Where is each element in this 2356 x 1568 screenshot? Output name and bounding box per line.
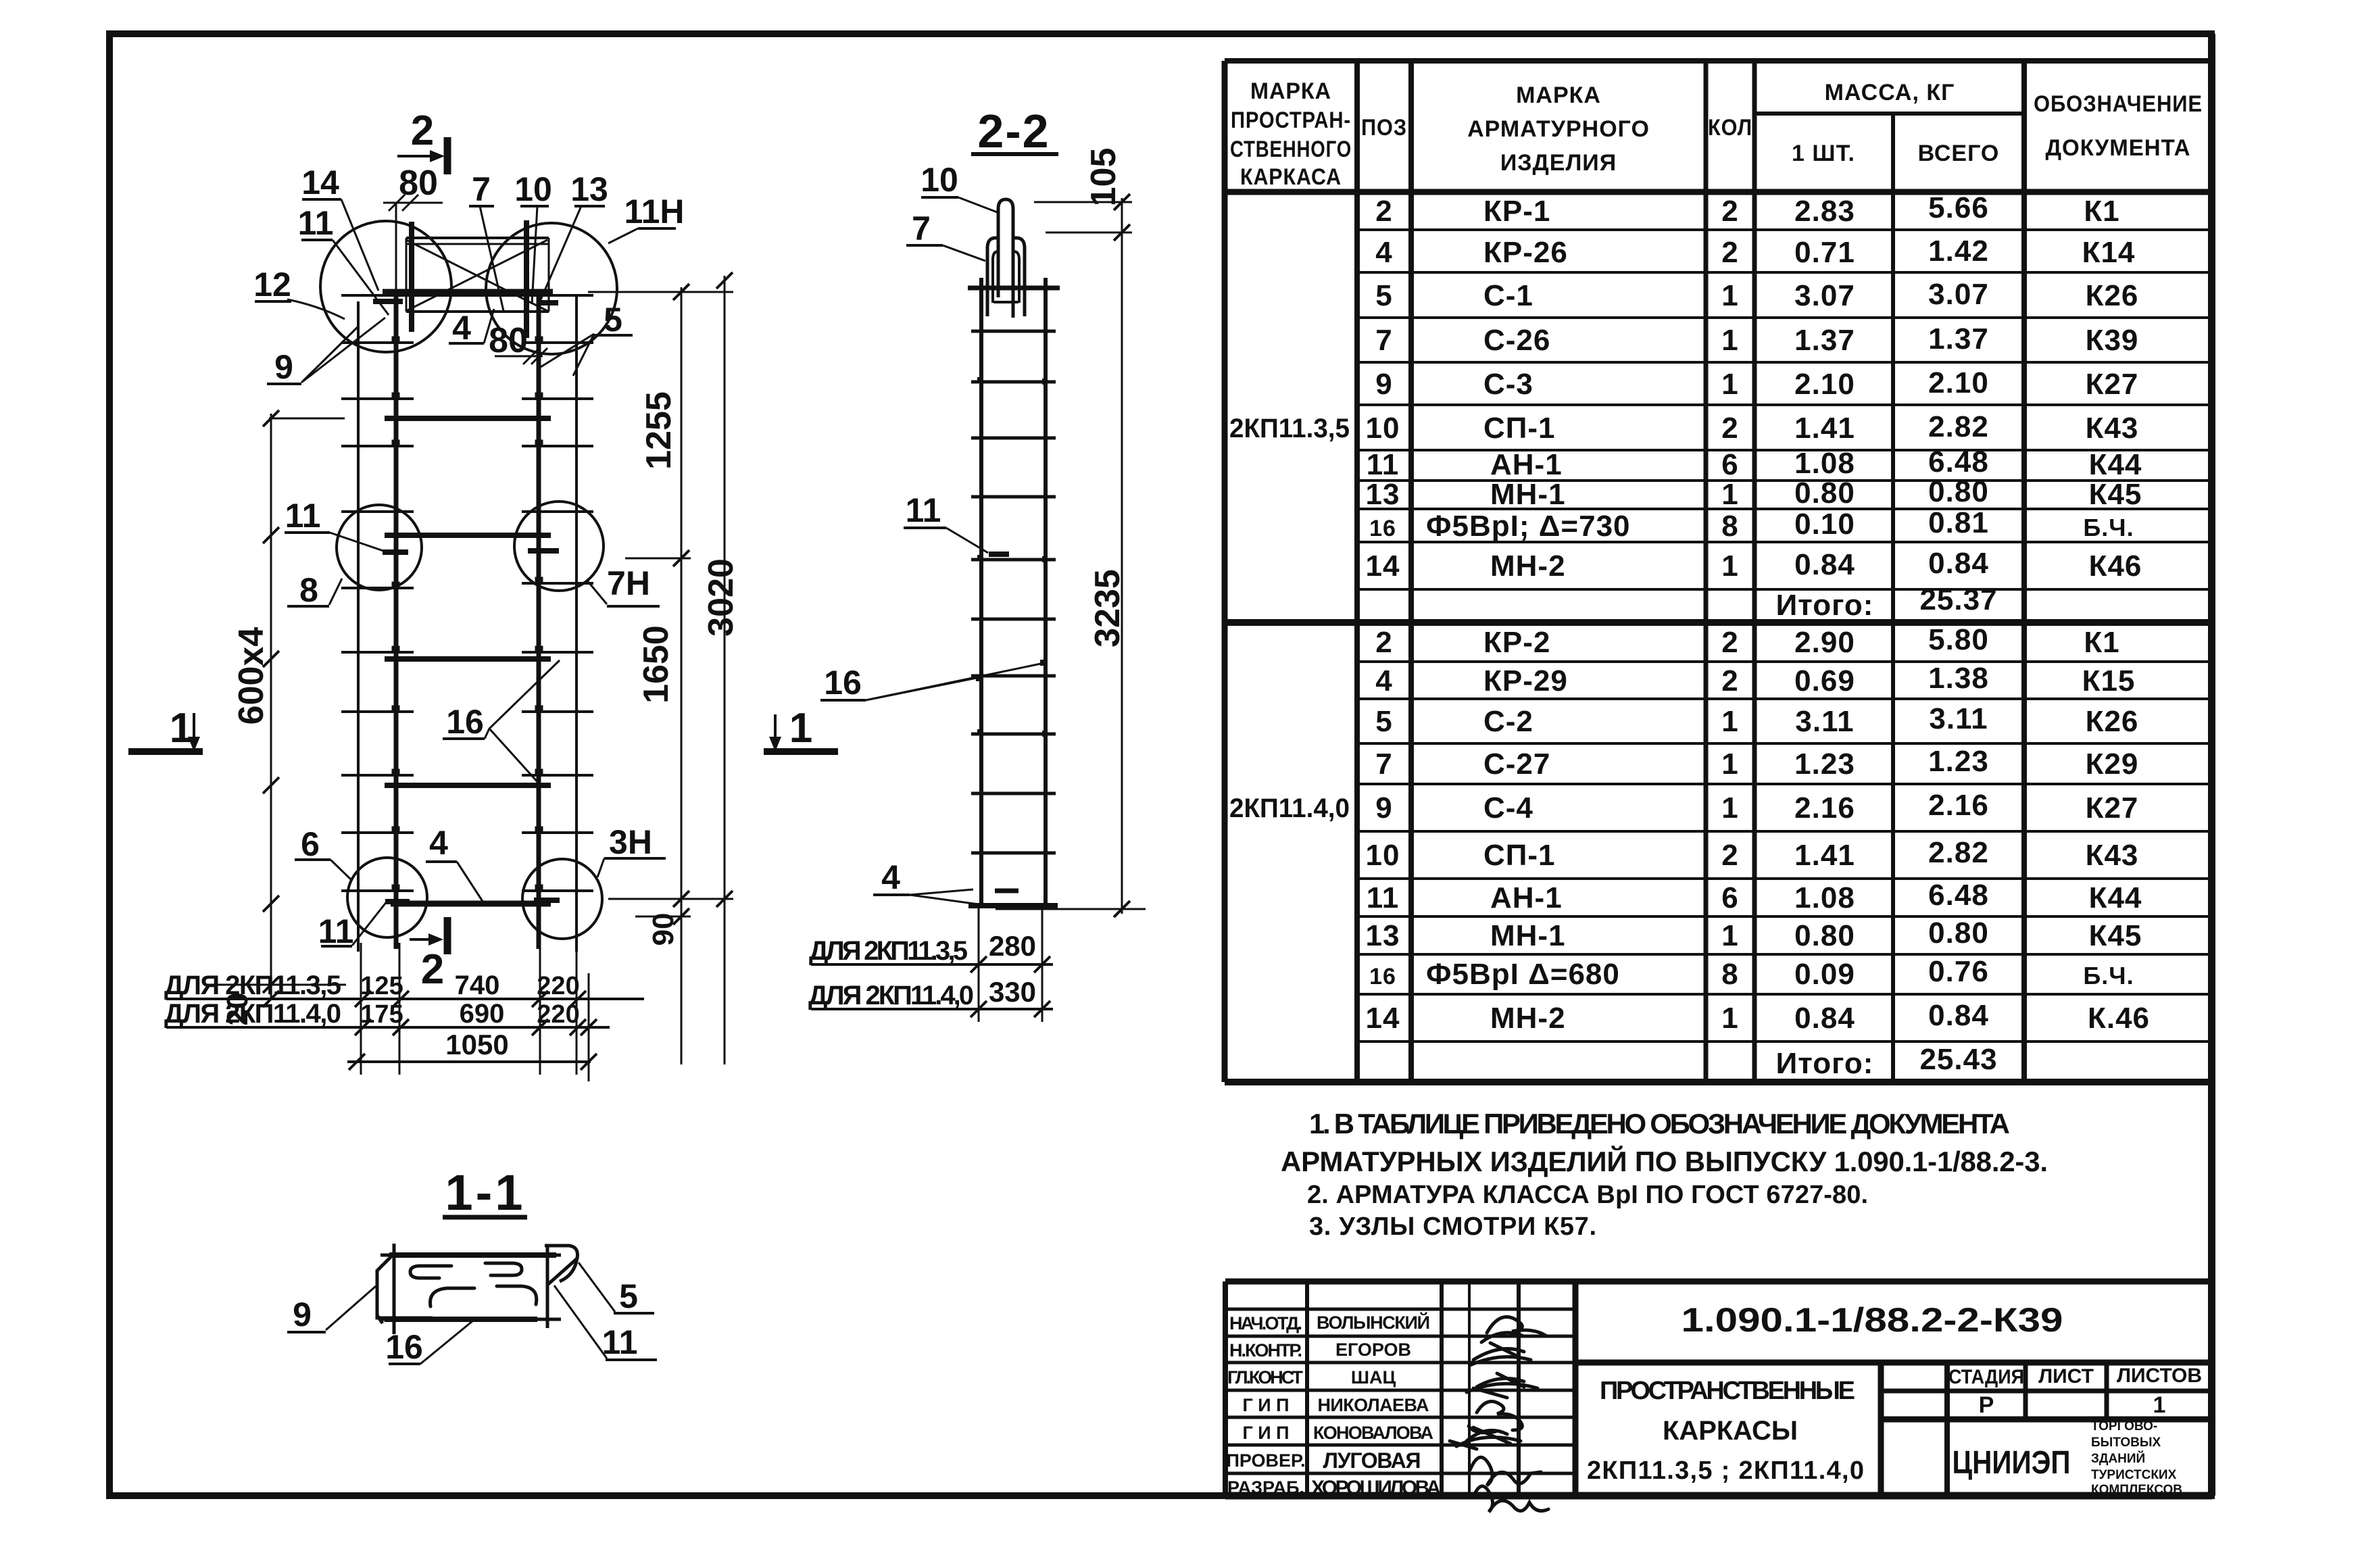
svg-text:600х4: 600х4 [232, 627, 271, 725]
svg-text:12: 12 [253, 266, 291, 303]
svg-text:3.11: 3.11 [1795, 705, 1854, 738]
svg-text:1: 1 [2153, 1392, 2166, 1418]
svg-text:90: 90 [647, 913, 680, 946]
svg-text:К14: К14 [2082, 236, 2136, 269]
svg-text:4: 4 [881, 858, 900, 896]
svg-text:К44: К44 [2089, 881, 2142, 914]
svg-text:1: 1 [1721, 368, 1738, 401]
svg-text:0.84: 0.84 [1928, 547, 1989, 580]
svg-text:7: 7 [912, 210, 931, 247]
svg-text:ЦНИИЭП: ЦНИИЭП [1953, 1445, 2071, 1481]
svg-text:К43: К43 [2086, 839, 2139, 872]
svg-text:7: 7 [472, 170, 491, 208]
svg-text:3. УЗЛЫ СМОТРИ К57.: 3. УЗЛЫ СМОТРИ К57. [1309, 1212, 1596, 1241]
svg-text:16: 16 [824, 664, 862, 702]
svg-text:8: 8 [299, 571, 318, 609]
svg-text:9: 9 [293, 1296, 312, 1333]
svg-text:1: 1 [1721, 324, 1738, 357]
svg-text:2: 2 [1721, 839, 1738, 872]
svg-text:ДЛЯ 2КП11.3,5: ДЛЯ 2КП11.3,5 [809, 936, 968, 966]
svg-text:3.11: 3.11 [1929, 702, 1988, 735]
svg-text:740: 740 [455, 971, 500, 1000]
svg-text:К1: К1 [2084, 626, 2119, 659]
svg-text:330: 330 [989, 976, 1036, 1008]
svg-text:0.84: 0.84 [1794, 548, 1855, 581]
svg-text:0.09: 0.09 [1794, 958, 1855, 991]
svg-text:80: 80 [399, 164, 438, 203]
svg-text:2.16: 2.16 [1928, 789, 1989, 822]
svg-text:5: 5 [619, 1277, 638, 1315]
svg-text:ПРОСТРАНСТВЕННЫЕ: ПРОСТРАНСТВЕННЫЕ [1600, 1377, 1855, 1405]
svg-text:МН-2: МН-2 [1490, 549, 1566, 583]
svg-text:0.10: 0.10 [1794, 508, 1855, 541]
svg-text:1.38: 1.38 [1928, 662, 1989, 695]
svg-text:СП-1: СП-1 [1483, 839, 1556, 872]
svg-text:2: 2 [1721, 626, 1738, 659]
svg-text:1 ШТ.: 1 ШТ. [1792, 141, 1855, 166]
svg-text:ТОРГОВО-: ТОРГОВО- [2091, 1419, 2157, 1434]
svg-text:К43: К43 [2086, 412, 2139, 445]
svg-text:К46: К46 [2089, 549, 2142, 583]
svg-text:КОЛ: КОЛ [1708, 115, 1752, 141]
svg-text:К26: К26 [2086, 279, 2139, 312]
svg-text:220: 220 [537, 1000, 579, 1029]
svg-text:7Н: 7Н [607, 564, 650, 602]
svg-text:8: 8 [1721, 510, 1738, 543]
svg-text:ЕГОРОВ: ЕГОРОВ [1335, 1340, 1411, 1360]
svg-text:5: 5 [1375, 705, 1392, 738]
svg-text:1255: 1255 [639, 391, 679, 470]
svg-text:0.71: 0.71 [1794, 236, 1855, 269]
svg-text:С-27: С-27 [1483, 748, 1550, 781]
svg-text:СТВЕННОГО: СТВЕННОГО [1230, 137, 1352, 162]
svg-text:1: 1 [1721, 478, 1738, 511]
svg-text:2КП11.4,0: 2КП11.4,0 [1229, 793, 1350, 823]
svg-text:0.80: 0.80 [1928, 475, 1989, 508]
svg-text:105: 105 [1084, 148, 1123, 207]
svg-text:11: 11 [285, 497, 321, 535]
svg-text:0.80: 0.80 [1794, 919, 1855, 952]
svg-text:2: 2 [1375, 195, 1392, 228]
svg-text:7: 7 [1375, 324, 1392, 357]
svg-text:2: 2 [1375, 626, 1392, 659]
svg-text:1.23: 1.23 [1928, 745, 1989, 778]
svg-text:11: 11 [906, 491, 941, 529]
svg-text:1.23: 1.23 [1794, 748, 1855, 781]
svg-text:ОБОЗНАЧЕНИЕ: ОБОЗНАЧЕНИЕ [2034, 91, 2203, 117]
svg-text:1.41: 1.41 [1794, 839, 1855, 872]
svg-text:С-2: С-2 [1483, 705, 1533, 738]
svg-text:6.48: 6.48 [1928, 879, 1989, 912]
svg-text:ПРОСТРАН-: ПРОСТРАН- [1231, 107, 1351, 133]
svg-text:6: 6 [1721, 881, 1738, 914]
svg-text:0.69: 0.69 [1794, 664, 1855, 697]
svg-text:1.08: 1.08 [1794, 881, 1855, 914]
svg-text:ЛУГОВАЯ: ЛУГОВАЯ [1323, 1448, 1421, 1473]
svg-text:ТУРИСТСКИХ: ТУРИСТСКИХ [2091, 1468, 2177, 1482]
svg-text:КАРКАСЫ: КАРКАСЫ [1663, 1416, 1798, 1446]
svg-text:1: 1 [1721, 279, 1738, 312]
svg-text:1: 1 [170, 705, 193, 752]
svg-text:2.10: 2.10 [1794, 368, 1855, 401]
svg-text:Н.КОНТР.: Н.КОНТР. [1229, 1340, 1302, 1361]
svg-text:10: 10 [1366, 839, 1400, 872]
svg-text:9: 9 [274, 348, 293, 386]
svg-text:КР-2: КР-2 [1483, 626, 1550, 659]
svg-text:1: 1 [1721, 1002, 1738, 1035]
svg-text:ДЛЯ 2КП11.4,0: ДЛЯ 2КП11.4,0 [808, 981, 974, 1010]
svg-text:11Н: 11Н [624, 193, 685, 230]
svg-text:Ф5ВрI Δ=680: Ф5ВрI Δ=680 [1426, 958, 1620, 991]
svg-text:Итого:: Итого: [1776, 1047, 1874, 1080]
svg-text:6: 6 [1721, 448, 1738, 481]
svg-text:0.80: 0.80 [1794, 476, 1855, 510]
svg-text:ШАЦ: ШАЦ [1351, 1367, 1396, 1388]
svg-text:ВОЛЫНСКИЙ: ВОЛЫНСКИЙ [1317, 1312, 1430, 1333]
svg-text:2.16: 2.16 [1794, 791, 1855, 825]
svg-text:К45: К45 [2089, 478, 2142, 511]
svg-text:ЗДАНИЙ: ЗДАНИЙ [2091, 1451, 2145, 1466]
svg-text:3Н: 3Н [609, 823, 652, 861]
svg-text:ВСЕГО: ВСЕГО [1918, 141, 2000, 166]
svg-text:С-1: С-1 [1483, 279, 1533, 312]
svg-text:13: 13 [570, 170, 608, 208]
svg-text:К39: К39 [2086, 324, 2139, 357]
svg-text:2: 2 [1721, 412, 1738, 445]
svg-text:1: 1 [1721, 549, 1738, 583]
svg-text:2-2: 2-2 [977, 105, 1050, 157]
svg-text:НИКОЛАЕВА: НИКОЛАЕВА [1318, 1395, 1429, 1415]
svg-text:КР-26: КР-26 [1483, 236, 1568, 269]
svg-text:6: 6 [301, 825, 320, 863]
svg-text:9: 9 [1375, 368, 1392, 401]
svg-text:1050: 1050 [445, 1029, 508, 1060]
svg-text:2.90: 2.90 [1794, 626, 1855, 659]
svg-text:Итого:: Итого: [1776, 589, 1874, 622]
svg-text:Р: Р [1979, 1392, 1994, 1418]
svg-text:ПРОВЕР.: ПРОВЕР. [1226, 1450, 1305, 1471]
svg-text:Г И П: Г И П [1242, 1423, 1289, 1443]
svg-text:МН-1: МН-1 [1490, 919, 1566, 952]
svg-text:ДЛЯ 2КП11.4,0: ДЛЯ 2КП11.4,0 [164, 999, 341, 1029]
svg-text:1.41: 1.41 [1794, 412, 1855, 445]
svg-text:9: 9 [1375, 791, 1392, 825]
svg-text:16: 16 [1369, 964, 1396, 989]
svg-text:СП-1: СП-1 [1483, 412, 1556, 445]
svg-text:16: 16 [446, 703, 484, 741]
svg-text:С-3: С-3 [1483, 368, 1533, 401]
svg-text:1: 1 [1721, 919, 1738, 952]
svg-text:5.80: 5.80 [1928, 623, 1989, 656]
svg-text:Ф5ВрI; Δ=730: Ф5ВрI; Δ=730 [1426, 510, 1631, 543]
svg-text:2: 2 [1721, 195, 1738, 228]
svg-text:125: 125 [360, 972, 403, 1000]
svg-text:КР-1: КР-1 [1483, 195, 1550, 228]
svg-text:1.37: 1.37 [1794, 324, 1855, 357]
svg-text:175: 175 [360, 1000, 403, 1029]
svg-text:АН-1: АН-1 [1490, 881, 1563, 914]
svg-text:2.82: 2.82 [1928, 836, 1989, 869]
svg-text:10: 10 [921, 161, 958, 199]
svg-text:МАРКА: МАРКА [1250, 78, 1331, 104]
svg-text:220: 220 [537, 972, 579, 1000]
svg-text:1: 1 [1721, 791, 1738, 825]
svg-text:КАРКАСА: КАРКАСА [1240, 164, 1342, 190]
svg-text:11: 11 [602, 1323, 638, 1361]
svg-text:3235: 3235 [1088, 569, 1127, 647]
svg-text:МН-1: МН-1 [1490, 478, 1566, 511]
svg-text:СТАДИЯ: СТАДИЯ [1948, 1366, 2024, 1388]
svg-text:АРМАТУРНЫХ ИЗДЕЛИЙ ПО ВЫПУСК: АРМАТУРНЫХ ИЗДЕЛИЙ ПО ВЫПУСКУ 1.090.1-1/… [1281, 1145, 2048, 1177]
svg-text:0.84: 0.84 [1794, 1002, 1855, 1035]
svg-text:НАЧ.ОТД.: НАЧ.ОТД. [1229, 1313, 1302, 1333]
svg-text:280: 280 [989, 930, 1036, 962]
svg-text:8: 8 [1721, 958, 1738, 991]
svg-text:2.83: 2.83 [1794, 195, 1855, 228]
svg-text:80: 80 [489, 321, 528, 360]
svg-text:16: 16 [1369, 516, 1396, 541]
svg-text:С-4: С-4 [1483, 791, 1533, 825]
svg-text:10: 10 [1366, 412, 1400, 445]
svg-text:К1: К1 [2084, 195, 2119, 228]
svg-text:ПОЗ: ПОЗ [1361, 115, 1407, 141]
svg-text:С-26: С-26 [1483, 324, 1550, 357]
svg-text:К26: К26 [2086, 705, 2139, 738]
svg-text:ЛИСТ: ЛИСТ [2038, 1365, 2094, 1388]
svg-text:АН-1: АН-1 [1490, 448, 1563, 481]
svg-text:4: 4 [1375, 664, 1392, 697]
svg-text:Б.Ч.: Б.Ч. [2083, 514, 2134, 541]
svg-text:КР-29: КР-29 [1483, 664, 1568, 697]
svg-text:5: 5 [604, 301, 622, 339]
svg-text:2. АРМАТУРА КЛАССА ВрI ПО ГОС: 2. АРМАТУРА КЛАССА ВрI ПО ГОСТ 6727-80. [1307, 1181, 1868, 1209]
svg-text:5.66: 5.66 [1928, 191, 1989, 224]
svg-text:2КП11.3,5: 2КП11.3,5 [1229, 414, 1350, 443]
svg-text:К.46: К.46 [2088, 1002, 2150, 1035]
svg-text:6.48: 6.48 [1928, 445, 1989, 479]
svg-text:1-1: 1-1 [445, 1165, 526, 1221]
svg-text:К15: К15 [2082, 664, 2136, 697]
svg-text:МАССА, КГ: МАССА, КГ [1825, 80, 1955, 105]
svg-text:25.43: 25.43 [1919, 1043, 1997, 1076]
svg-text:14: 14 [1366, 549, 1400, 583]
svg-text:4: 4 [1375, 236, 1392, 269]
svg-text:Г И П: Г И П [1242, 1395, 1289, 1415]
svg-text:РАЗРАБ.: РАЗРАБ. [1227, 1477, 1304, 1498]
svg-text:1. В ТАБЛИЦЕ ПРИВЕДЕНО ОБОЗН: 1. В ТАБЛИЦЕ ПРИВЕДЕНО ОБОЗНАЧЕНИЕ ДОКУМ… [1309, 1108, 2010, 1140]
svg-text:25.37: 25.37 [1919, 583, 1997, 616]
svg-text:7: 7 [1375, 748, 1392, 781]
svg-text:10: 10 [514, 170, 552, 208]
svg-text:1.42: 1.42 [1928, 235, 1989, 268]
svg-text:5: 5 [1375, 279, 1392, 312]
svg-text:1: 1 [789, 705, 812, 752]
svg-text:0.76: 0.76 [1928, 955, 1989, 988]
svg-text:2.82: 2.82 [1928, 410, 1989, 443]
svg-text:13: 13 [1366, 478, 1400, 511]
svg-text:БЫТОВЫХ: БЫТОВЫХ [2091, 1436, 2161, 1450]
svg-text:1: 1 [1721, 748, 1738, 781]
svg-text:К44: К44 [2089, 448, 2142, 481]
svg-text:0.84: 0.84 [1928, 999, 1989, 1032]
svg-text:3.07: 3.07 [1928, 278, 1989, 311]
svg-text:13: 13 [1366, 919, 1400, 952]
svg-text:3020: 3020 [702, 558, 741, 637]
svg-text:2: 2 [1721, 236, 1738, 269]
svg-text:ЛИСТОВ: ЛИСТОВ [2117, 1365, 2202, 1387]
svg-text:14: 14 [1366, 1002, 1400, 1035]
svg-text:4: 4 [452, 309, 471, 347]
svg-text:ХОРОШИЛОВА: ХОРОШИЛОВА [1311, 1477, 1441, 1499]
svg-text:2: 2 [411, 107, 434, 154]
svg-text:Б.Ч.: Б.Ч. [2083, 962, 2134, 989]
svg-text:2: 2 [421, 946, 444, 993]
svg-text:2КП11.3,5 ; 2КП11.4,0: 2КП11.3,5 ; 2КП11.4,0 [1587, 1456, 1864, 1485]
svg-text:690: 690 [460, 999, 505, 1029]
svg-text:1: 1 [1721, 705, 1738, 738]
svg-text:1.090.1-1/88.2-2-К39: 1.090.1-1/88.2-2-К39 [1682, 1301, 2063, 1339]
svg-text:1.08: 1.08 [1794, 447, 1855, 480]
svg-text:КОМПЛЕКСОВ: КОМПЛЕКСОВ [2091, 1483, 2182, 1497]
svg-text:МАРКА: МАРКА [1516, 82, 1601, 108]
svg-text:К27: К27 [2086, 368, 2139, 401]
svg-text:3.07: 3.07 [1794, 279, 1855, 312]
svg-text:11: 11 [1367, 448, 1400, 481]
svg-text:14: 14 [301, 164, 339, 201]
svg-text:ДОКУМЕНТА: ДОКУМЕНТА [2046, 135, 2191, 161]
svg-text:0.80: 0.80 [1928, 916, 1989, 950]
svg-text:2: 2 [1721, 664, 1738, 697]
svg-text:1650: 1650 [637, 625, 676, 704]
svg-text:ИЗДЕЛИЯ: ИЗДЕЛИЯ [1500, 150, 1617, 176]
svg-text:2.10: 2.10 [1928, 366, 1989, 399]
svg-text:ГЛ.КОНСТ: ГЛ.КОНСТ [1227, 1367, 1304, 1388]
svg-text:11: 11 [1367, 881, 1400, 914]
svg-text:11: 11 [318, 912, 354, 950]
svg-text:11: 11 [298, 204, 334, 242]
svg-text:КОНОВАЛОВА: КОНОВАЛОВА [1313, 1423, 1433, 1443]
svg-text:К27: К27 [2086, 791, 2139, 825]
svg-text:АРМАТУРНОГО: АРМАТУРНОГО [1467, 116, 1650, 142]
svg-text:1.37: 1.37 [1928, 322, 1989, 356]
svg-text:К45: К45 [2089, 919, 2142, 952]
svg-text:К29: К29 [2086, 748, 2139, 781]
svg-text:4: 4 [429, 824, 448, 862]
svg-text:ДЛЯ 2КП11.3,5: ДЛЯ 2КП11.3,5 [164, 971, 341, 1000]
svg-text:МН-2: МН-2 [1490, 1002, 1566, 1035]
svg-text:0.81: 0.81 [1928, 506, 1989, 539]
svg-text:16: 16 [385, 1328, 423, 1366]
